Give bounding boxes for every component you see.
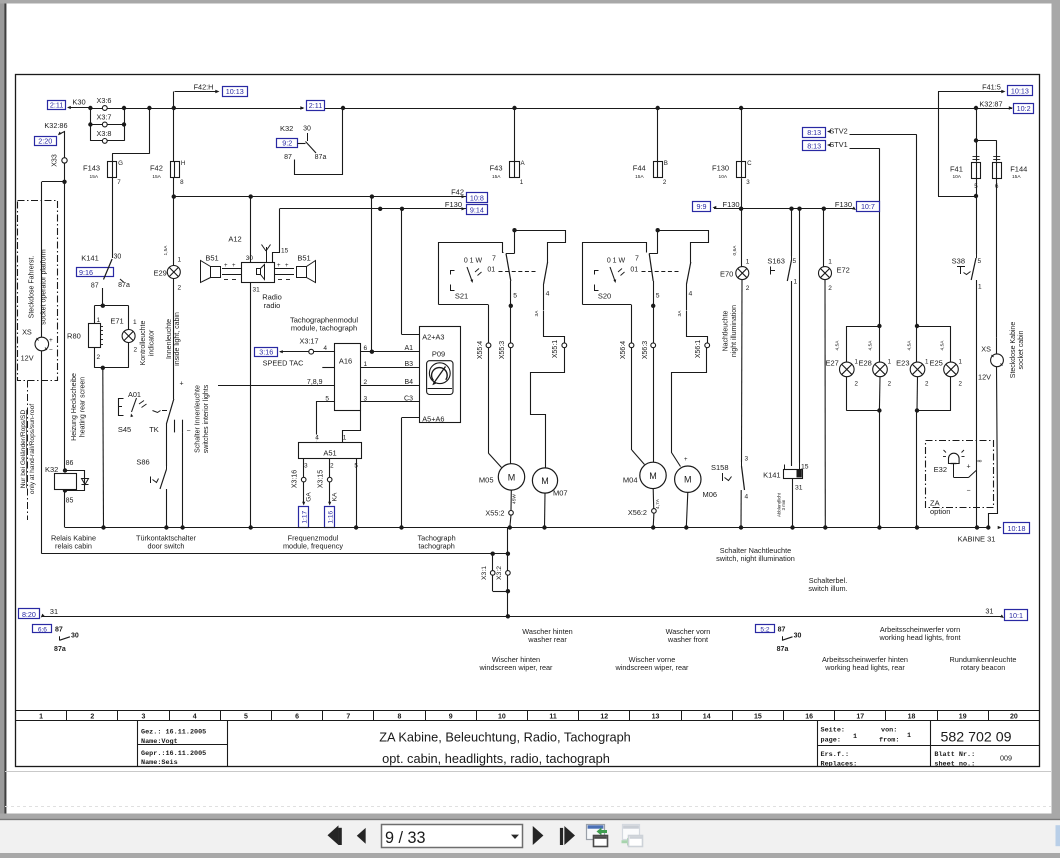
svg-text:von:: von: bbox=[881, 727, 897, 735]
svg-text:1: 1 bbox=[925, 359, 929, 366]
svg-text:switches interior lights: switches interior lights bbox=[203, 384, 210, 453]
svg-text:87a: 87a bbox=[54, 646, 66, 653]
svg-text:C: C bbox=[747, 160, 752, 167]
svg-text:E25: E25 bbox=[929, 358, 942, 367]
svg-text:A2+A3: A2+A3 bbox=[422, 332, 444, 341]
svg-text:sheet no.:: sheet no.: bbox=[934, 761, 975, 769]
svg-text:16: 16 bbox=[805, 714, 813, 721]
svg-text:inside light, cabin: inside light, cabin bbox=[174, 312, 181, 366]
svg-text:K32:87: K32:87 bbox=[979, 99, 1002, 108]
svg-text:5:2: 5:2 bbox=[760, 626, 769, 633]
svg-text:Steckdose Fahrerst.: Steckdose Fahrerst. bbox=[29, 256, 36, 319]
svg-text:K141: K141 bbox=[763, 471, 781, 480]
svg-text:45W: 45W bbox=[512, 494, 518, 504]
svg-text:S163: S163 bbox=[767, 256, 785, 265]
svg-text:15A: 15A bbox=[1012, 174, 1021, 180]
svg-text:1:17: 1:17 bbox=[302, 510, 309, 523]
svg-text:1,5A: 1,5A bbox=[163, 245, 169, 256]
svg-text:4,5A: 4,5A bbox=[868, 340, 874, 351]
svg-text:3: 3 bbox=[745, 456, 749, 463]
svg-text:A1: A1 bbox=[404, 345, 413, 352]
svg-text:−: − bbox=[49, 347, 53, 354]
svg-text:KABINE 31: KABINE 31 bbox=[958, 535, 996, 544]
svg-text:X3:7: X3:7 bbox=[96, 113, 111, 122]
svg-text:only at hand-rail/Rops/sun-roo: only at hand-rail/Rops/sun-roof bbox=[29, 404, 36, 494]
svg-text:Steckdose Kabine: Steckdose Kabine bbox=[1010, 322, 1017, 379]
svg-text:Schalter Innenleuchte: Schalter Innenleuchte bbox=[195, 385, 202, 453]
svg-text:Innenleuchte: Innenleuchte bbox=[166, 319, 173, 359]
svg-text:15A: 15A bbox=[492, 174, 501, 180]
svg-text:E28: E28 bbox=[858, 358, 871, 367]
svg-text:2:11: 2:11 bbox=[309, 101, 322, 110]
svg-text:5: 5 bbox=[656, 293, 660, 300]
svg-text:1: 1 bbox=[39, 714, 43, 721]
svg-text:1: 1 bbox=[794, 279, 798, 286]
svg-text:0 1 W: 0 1 W bbox=[607, 257, 626, 264]
svg-text:F130: F130 bbox=[712, 164, 729, 173]
svg-text:K32:86: K32:86 bbox=[44, 121, 67, 130]
svg-text:0,6A: 0,6A bbox=[732, 245, 738, 256]
svg-text:K30: K30 bbox=[72, 98, 85, 107]
svg-text:30: 30 bbox=[114, 254, 122, 261]
svg-text:+: + bbox=[684, 457, 688, 463]
svg-text:M07: M07 bbox=[553, 489, 568, 498]
svg-text:3A: 3A bbox=[534, 310, 540, 317]
svg-text:indicator: indicator bbox=[148, 329, 155, 356]
svg-text:9:9: 9:9 bbox=[697, 202, 707, 211]
svg-text:socket cabin: socket cabin bbox=[1018, 330, 1025, 369]
svg-text:2: 2 bbox=[828, 285, 832, 292]
svg-text:15A: 15A bbox=[152, 174, 161, 180]
svg-text:13: 13 bbox=[652, 714, 660, 721]
svg-text:1: 1 bbox=[907, 732, 911, 740]
svg-text:4: 4 bbox=[546, 291, 550, 298]
svg-text:GA: GA bbox=[306, 492, 313, 502]
svg-text:9:16: 9:16 bbox=[79, 268, 93, 277]
svg-text:31: 31 bbox=[253, 287, 261, 294]
svg-text:X3:16: X3:16 bbox=[291, 470, 298, 488]
svg-text:+: + bbox=[967, 464, 971, 471]
svg-text:10:2: 10:2 bbox=[1017, 104, 1031, 113]
svg-text:4: 4 bbox=[745, 494, 749, 501]
svg-text:3 min: 3 min bbox=[781, 499, 786, 510]
svg-text:4,5A: 4,5A bbox=[940, 340, 946, 351]
svg-text:31: 31 bbox=[985, 607, 993, 616]
svg-text:F130: F130 bbox=[445, 200, 462, 209]
svg-text:Nachtleuchte: Nachtleuchte bbox=[723, 310, 730, 351]
svg-text:option: option bbox=[930, 507, 950, 516]
svg-text:2: 2 bbox=[959, 381, 963, 388]
svg-text:X56:2: X56:2 bbox=[628, 508, 647, 517]
svg-text:Kontrolleuchte: Kontrolleuchte bbox=[140, 321, 147, 366]
svg-text:11: 11 bbox=[549, 714, 557, 721]
svg-text:1: 1 bbox=[746, 259, 750, 266]
svg-text:87: 87 bbox=[284, 154, 292, 161]
svg-text:7: 7 bbox=[635, 256, 639, 263]
svg-text:2: 2 bbox=[888, 381, 892, 388]
svg-text:rotary beacon: rotary beacon bbox=[961, 663, 1006, 672]
svg-text:10: 10 bbox=[498, 714, 506, 721]
svg-text:3: 3 bbox=[142, 714, 146, 721]
svg-text:B51: B51 bbox=[205, 254, 218, 263]
svg-text:X55:1: X55:1 bbox=[552, 340, 559, 358]
svg-text:85: 85 bbox=[66, 498, 74, 505]
svg-text:XS: XS bbox=[22, 328, 32, 337]
svg-text:15A: 15A bbox=[90, 174, 99, 180]
svg-text:Seite:: Seite: bbox=[821, 727, 845, 735]
svg-text:9:2: 9:2 bbox=[282, 138, 292, 147]
svg-text:3:16: 3:16 bbox=[259, 347, 273, 356]
svg-text:module, tachograph: module, tachograph bbox=[291, 324, 357, 333]
svg-text:F41:5: F41:5 bbox=[982, 83, 1001, 92]
svg-text:S45: S45 bbox=[118, 425, 131, 434]
svg-text:1: 1 bbox=[133, 319, 137, 326]
svg-text:X3:15: X3:15 bbox=[317, 470, 324, 488]
svg-text:Name:Seis: Name:Seis bbox=[141, 759, 178, 767]
svg-text:17: 17 bbox=[856, 714, 864, 721]
svg-text:7: 7 bbox=[117, 179, 121, 186]
svg-text:582 702 09: 582 702 09 bbox=[940, 730, 1011, 746]
svg-text:Replaces:: Replaces: bbox=[821, 761, 858, 769]
svg-text:X56:4: X56:4 bbox=[620, 341, 627, 359]
svg-text:86: 86 bbox=[66, 460, 74, 467]
svg-text:+: + bbox=[277, 263, 281, 269]
svg-text:KA: KA bbox=[332, 492, 339, 501]
svg-text:F130: F130 bbox=[723, 200, 740, 209]
svg-text:M05: M05 bbox=[479, 475, 494, 484]
svg-text:M04: M04 bbox=[623, 475, 638, 484]
svg-text:01: 01 bbox=[630, 267, 638, 274]
svg-text:X56:1: X56:1 bbox=[695, 340, 702, 358]
svg-text:1: 1 bbox=[343, 435, 347, 442]
svg-text:switch illum.: switch illum. bbox=[808, 584, 847, 593]
svg-text:M06: M06 bbox=[703, 490, 718, 499]
svg-text:F43: F43 bbox=[490, 164, 503, 173]
svg-text:X3:2: X3:2 bbox=[496, 566, 503, 580]
svg-text:S158: S158 bbox=[711, 463, 729, 472]
svg-text:10:8: 10:8 bbox=[470, 193, 484, 202]
svg-text:−: − bbox=[967, 488, 971, 495]
svg-text:1: 1 bbox=[828, 259, 832, 266]
svg-text:2: 2 bbox=[663, 179, 667, 186]
svg-text:Gez.: 16.11.2005: Gez.: 16.11.2005 bbox=[141, 729, 206, 737]
svg-text:page:: page: bbox=[821, 737, 841, 745]
svg-text:heating rear screen: heating rear screen bbox=[80, 377, 87, 437]
svg-text:2: 2 bbox=[330, 463, 334, 470]
svg-text:−: − bbox=[187, 428, 191, 435]
svg-text:X33: X33 bbox=[52, 154, 59, 167]
svg-text:+: + bbox=[224, 263, 228, 269]
svg-text:3A: 3A bbox=[677, 310, 683, 317]
svg-text:M: M bbox=[649, 471, 657, 481]
svg-text:door switch: door switch bbox=[148, 541, 185, 550]
svg-text:10:1: 10:1 bbox=[1009, 611, 1023, 620]
svg-text:S20: S20 bbox=[598, 292, 611, 301]
svg-text:washer front: washer front bbox=[667, 635, 708, 644]
svg-text:E72: E72 bbox=[837, 265, 850, 274]
svg-text:F42:H: F42:H bbox=[194, 82, 214, 91]
svg-text:20: 20 bbox=[1010, 714, 1018, 721]
svg-text:15: 15 bbox=[281, 248, 289, 255]
svg-text:2: 2 bbox=[364, 379, 368, 386]
svg-text:6:6: 6:6 bbox=[38, 626, 47, 633]
svg-text:B4: B4 bbox=[404, 379, 413, 386]
svg-text:X3:6: X3:6 bbox=[96, 96, 111, 105]
svg-text:7: 7 bbox=[492, 256, 496, 263]
svg-text:2: 2 bbox=[178, 285, 182, 292]
svg-text:module, frequency: module, frequency bbox=[283, 541, 343, 550]
svg-text:87: 87 bbox=[778, 627, 786, 634]
svg-text:from:: from: bbox=[879, 737, 899, 745]
svg-text:2:11: 2:11 bbox=[50, 100, 63, 109]
svg-text:1: 1 bbox=[520, 179, 524, 186]
svg-text:A51: A51 bbox=[323, 449, 336, 458]
svg-text:windscreen wiper, rear: windscreen wiper, rear bbox=[614, 663, 689, 672]
svg-text:6: 6 bbox=[364, 345, 368, 352]
svg-text:STV1: STV1 bbox=[829, 140, 847, 149]
svg-text:2: 2 bbox=[90, 714, 94, 721]
svg-text:X55:3: X55:3 bbox=[499, 341, 506, 359]
svg-text:8: 8 bbox=[180, 179, 184, 186]
svg-text:H: H bbox=[181, 160, 185, 167]
svg-text:STV2: STV2 bbox=[829, 126, 847, 135]
svg-text:X3:8: X3:8 bbox=[96, 129, 111, 138]
svg-text:30: 30 bbox=[71, 633, 79, 640]
svg-text:windscreen wiper, rear: windscreen wiper, rear bbox=[478, 663, 553, 672]
svg-text:01: 01 bbox=[487, 267, 495, 274]
svg-text:XS: XS bbox=[981, 344, 991, 353]
svg-text:B51: B51 bbox=[297, 254, 310, 263]
svg-text:5: 5 bbox=[513, 293, 517, 300]
svg-text:0 1 W: 0 1 W bbox=[464, 257, 483, 264]
svg-text:3: 3 bbox=[364, 396, 368, 403]
svg-text:C3: C3 bbox=[404, 396, 413, 403]
svg-text:washer rear: washer rear bbox=[527, 635, 567, 644]
svg-text:87a: 87a bbox=[118, 282, 130, 289]
svg-text:X3:1: X3:1 bbox=[481, 566, 488, 580]
svg-text:Name:Vogt: Name:Vogt bbox=[141, 738, 178, 746]
svg-text:F44: F44 bbox=[633, 164, 646, 173]
svg-text:31: 31 bbox=[795, 485, 803, 492]
svg-text:ZA Kabine, Beleuchtung, Radio,: ZA Kabine, Beleuchtung, Radio, Tachograp… bbox=[379, 730, 631, 745]
svg-text:S38: S38 bbox=[952, 256, 965, 265]
svg-text:S86: S86 bbox=[136, 458, 149, 467]
svg-text:5: 5 bbox=[244, 714, 248, 721]
svg-text:4,7A: 4,7A bbox=[655, 498, 661, 509]
svg-text:E23: E23 bbox=[896, 358, 909, 367]
svg-text:10:7: 10:7 bbox=[861, 202, 875, 211]
svg-text:night illumination: night illumination bbox=[731, 305, 738, 357]
svg-text:Nur bei Geländer/Rops/SD: Nur bei Geländer/Rops/SD bbox=[20, 410, 27, 489]
svg-text:15: 15 bbox=[754, 714, 762, 721]
svg-text:B: B bbox=[664, 160, 668, 167]
svg-text:2: 2 bbox=[925, 381, 929, 388]
svg-text:5: 5 bbox=[793, 258, 797, 265]
svg-text:8: 8 bbox=[978, 459, 984, 462]
svg-text:P09: P09 bbox=[432, 350, 445, 359]
svg-text:4,5A: 4,5A bbox=[906, 340, 912, 351]
svg-text:009: 009 bbox=[1000, 754, 1012, 763]
svg-text:1: 1 bbox=[959, 359, 963, 366]
svg-text:14: 14 bbox=[703, 714, 711, 721]
svg-text:F41: F41 bbox=[950, 165, 963, 174]
svg-text:2:20: 2:20 bbox=[38, 136, 52, 145]
svg-text:X3:17: X3:17 bbox=[299, 337, 318, 346]
svg-text:1: 1 bbox=[853, 733, 857, 741]
svg-text:6: 6 bbox=[295, 714, 299, 721]
svg-text:G: G bbox=[118, 160, 123, 167]
svg-text:4: 4 bbox=[315, 435, 319, 442]
svg-text:+: + bbox=[285, 263, 289, 269]
svg-text:F130: F130 bbox=[835, 200, 852, 209]
svg-text:9:14: 9:14 bbox=[470, 205, 484, 214]
svg-text:4: 4 bbox=[689, 291, 693, 298]
svg-text:12: 12 bbox=[600, 714, 608, 721]
svg-text:8:13: 8:13 bbox=[807, 142, 821, 151]
svg-text:10:18: 10:18 bbox=[1008, 524, 1026, 533]
svg-text:A16: A16 bbox=[339, 357, 352, 366]
svg-text:working head lights, rear: working head lights, rear bbox=[824, 663, 905, 672]
svg-text:5: 5 bbox=[978, 258, 982, 265]
svg-text:SPEED TAC: SPEED TAC bbox=[263, 359, 304, 368]
svg-text:A01: A01 bbox=[128, 390, 141, 399]
svg-text:M: M bbox=[541, 476, 549, 486]
svg-text:1: 1 bbox=[978, 284, 982, 291]
svg-text:socket operator platform: socket operator platform bbox=[40, 249, 47, 325]
svg-text:A12: A12 bbox=[228, 235, 241, 244]
svg-text:10A: 10A bbox=[719, 174, 728, 180]
svg-text:E32: E32 bbox=[934, 465, 947, 474]
svg-text:3: 3 bbox=[746, 179, 750, 186]
svg-text:8:13: 8:13 bbox=[807, 128, 821, 137]
svg-text:4: 4 bbox=[193, 714, 197, 721]
svg-text:2: 2 bbox=[134, 347, 138, 354]
svg-text:10:13: 10:13 bbox=[1011, 87, 1029, 96]
svg-text:12V: 12V bbox=[21, 354, 34, 363]
svg-text:9: 9 bbox=[449, 714, 453, 721]
svg-text:12V: 12V bbox=[978, 373, 991, 382]
svg-text:1: 1 bbox=[178, 257, 182, 264]
svg-text:1: 1 bbox=[364, 361, 368, 368]
svg-text:Gepr.:16.11.2005: Gepr.:16.11.2005 bbox=[141, 750, 206, 758]
svg-text:10:13: 10:13 bbox=[226, 87, 244, 96]
svg-text:30: 30 bbox=[246, 255, 254, 262]
svg-text:M: M bbox=[684, 475, 692, 485]
svg-text:1:16: 1:16 bbox=[328, 510, 335, 523]
svg-text:8: 8 bbox=[398, 714, 402, 721]
svg-text:+: + bbox=[180, 381, 184, 388]
svg-text:E70: E70 bbox=[720, 270, 733, 279]
svg-text:working head lights, front: working head lights, front bbox=[878, 633, 960, 642]
svg-text:K32: K32 bbox=[280, 124, 293, 133]
svg-text:B3: B3 bbox=[404, 361, 413, 368]
svg-text:+: + bbox=[49, 337, 53, 344]
svg-text:31: 31 bbox=[50, 607, 58, 616]
svg-text:F144: F144 bbox=[1010, 165, 1027, 174]
svg-text:K141: K141 bbox=[81, 254, 99, 263]
svg-text:7,8,9: 7,8,9 bbox=[307, 379, 323, 386]
svg-text:M: M bbox=[508, 472, 516, 482]
svg-text:E29: E29 bbox=[153, 269, 166, 278]
svg-text:87a: 87a bbox=[315, 154, 327, 161]
svg-text:87: 87 bbox=[91, 283, 99, 290]
svg-text:18: 18 bbox=[908, 714, 916, 721]
svg-text:switch, night illumination: switch, night illumination bbox=[716, 554, 795, 563]
svg-text:10A: 10A bbox=[952, 174, 961, 180]
svg-text:+: + bbox=[232, 263, 236, 269]
svg-text:opt. cabin, headlights, radio,: opt. cabin, headlights, radio, tachograp… bbox=[382, 751, 610, 766]
svg-text:2: 2 bbox=[855, 381, 859, 388]
svg-text:2: 2 bbox=[97, 354, 101, 361]
svg-text:87: 87 bbox=[55, 627, 63, 634]
svg-text:4,5A: 4,5A bbox=[835, 340, 841, 351]
svg-text:R80: R80 bbox=[67, 332, 81, 341]
svg-text:Ers.f.:: Ers.f.: bbox=[821, 751, 850, 759]
svg-text:tachograph: tachograph bbox=[418, 541, 455, 550]
svg-text:19: 19 bbox=[959, 714, 967, 721]
svg-text:X55:2: X55:2 bbox=[485, 508, 504, 517]
svg-text:X56:3: X56:3 bbox=[642, 341, 649, 359]
svg-text:30: 30 bbox=[303, 126, 311, 133]
svg-text:A5+A6: A5+A6 bbox=[422, 414, 444, 423]
svg-text:X55:4: X55:4 bbox=[477, 341, 484, 359]
svg-text:2: 2 bbox=[746, 285, 750, 292]
svg-text:E71: E71 bbox=[110, 317, 123, 326]
svg-text:8:20: 8:20 bbox=[22, 610, 36, 619]
svg-text:K32: K32 bbox=[45, 465, 58, 474]
svg-text:radio: radio bbox=[264, 301, 281, 310]
svg-text:7: 7 bbox=[346, 714, 350, 721]
svg-text:E27: E27 bbox=[825, 358, 838, 367]
svg-text:30: 30 bbox=[794, 633, 802, 640]
svg-text:3: 3 bbox=[304, 463, 308, 470]
svg-text:9 / 33: 9 / 33 bbox=[385, 829, 426, 847]
svg-text:F143: F143 bbox=[83, 164, 100, 173]
svg-text:TK: TK bbox=[149, 425, 159, 434]
svg-text:Blatt Nr.:: Blatt Nr.: bbox=[934, 751, 975, 759]
svg-text:F42: F42 bbox=[150, 164, 163, 173]
svg-text:relais cabin: relais cabin bbox=[55, 541, 92, 550]
svg-text:4: 4 bbox=[323, 345, 327, 352]
svg-text:Heizung Heckscheibe: Heizung Heckscheibe bbox=[71, 373, 78, 441]
svg-text:87a: 87a bbox=[777, 646, 789, 653]
svg-text:1: 1 bbox=[888, 359, 892, 366]
svg-text:S21: S21 bbox=[455, 292, 468, 301]
svg-text:15A: 15A bbox=[635, 174, 644, 180]
